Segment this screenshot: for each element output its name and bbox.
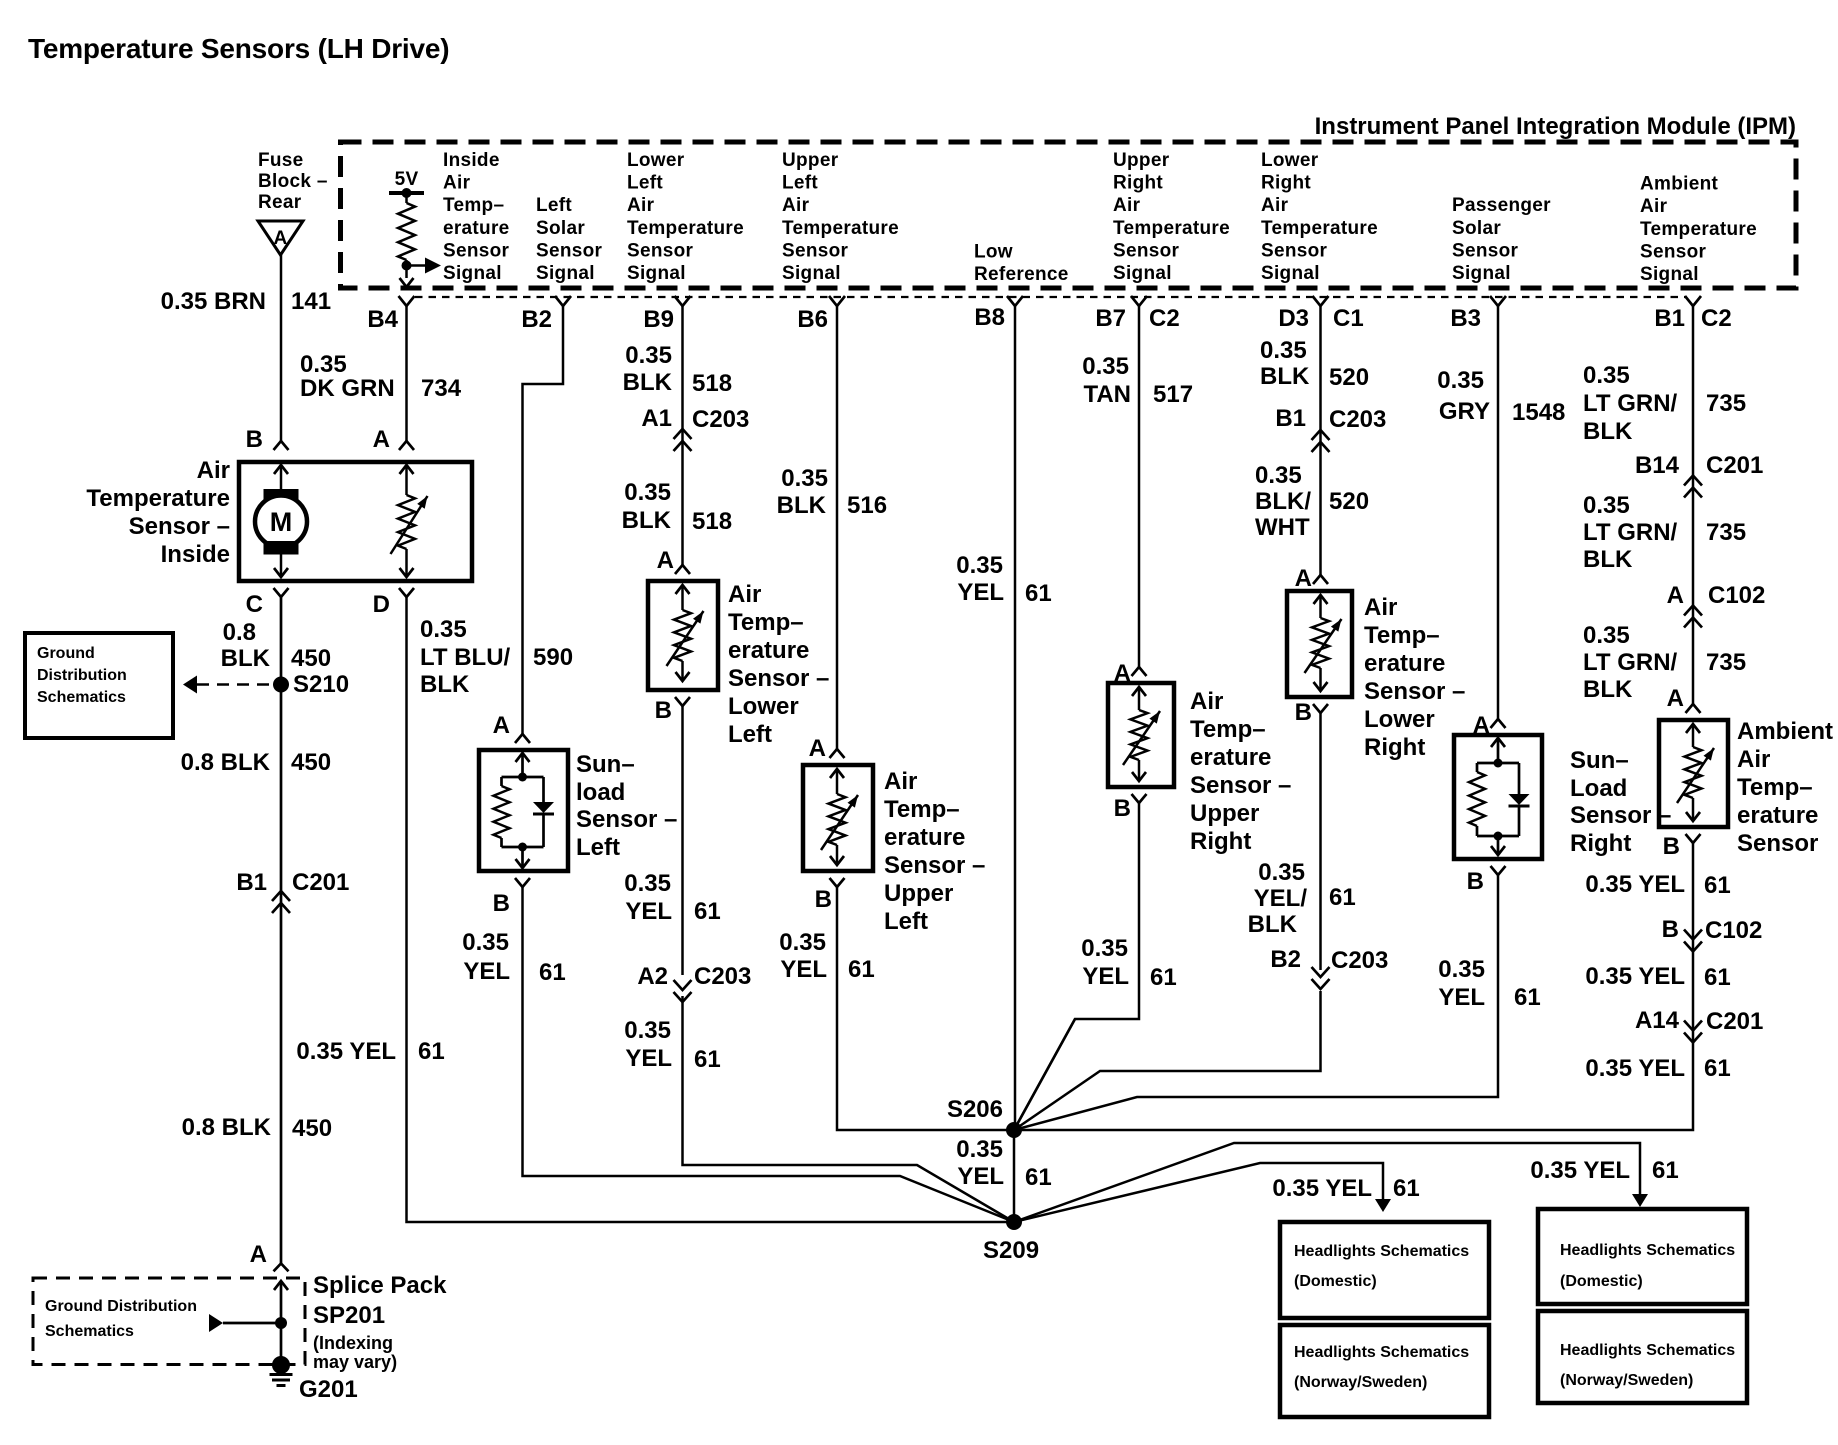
svg-text:Temperature: Temperature: [1640, 219, 1757, 240]
svg-text:5V: 5V: [395, 169, 419, 190]
svg-text:520: 520: [1329, 488, 1369, 515]
svg-text:0.35: 0.35: [462, 929, 509, 956]
svg-text:Left: Left: [728, 721, 772, 748]
svg-text:61: 61: [539, 959, 566, 986]
svg-text:BLK: BLK: [622, 507, 672, 534]
svg-text:Low: Low: [974, 241, 1013, 262]
svg-text:61: 61: [1652, 1157, 1679, 1184]
svg-text:Temperature: Temperature: [627, 218, 744, 239]
svg-text:Temp–: Temp–: [884, 796, 960, 823]
svg-text:734: 734: [421, 375, 462, 402]
svg-text:Schematics: Schematics: [45, 1323, 134, 1340]
svg-text:Air: Air: [443, 173, 471, 194]
svg-text:Right: Right: [1113, 173, 1163, 194]
svg-text:61: 61: [418, 1038, 445, 1065]
svg-text:Upper: Upper: [782, 150, 839, 171]
svg-text:YEL: YEL: [957, 1163, 1004, 1190]
svg-text:Air: Air: [1190, 688, 1223, 715]
svg-text:C102: C102: [1708, 582, 1765, 609]
svg-text:C102: C102: [1705, 917, 1762, 944]
svg-text:B6: B6: [797, 306, 828, 333]
svg-text:BLK: BLK: [777, 492, 827, 519]
svg-text:Ground Distribution: Ground Distribution: [45, 1298, 197, 1315]
svg-text:erature: erature: [884, 824, 965, 851]
svg-text:61: 61: [1393, 1175, 1420, 1202]
svg-text:0.8 BLK: 0.8 BLK: [181, 749, 271, 776]
svg-text:0.35: 0.35: [624, 1017, 671, 1044]
svg-text:erature: erature: [443, 218, 510, 239]
svg-text:B: B: [1295, 699, 1312, 726]
svg-text:Air: Air: [884, 768, 917, 795]
svg-text:G201: G201: [299, 1376, 358, 1403]
svg-text:Left: Left: [884, 908, 928, 935]
svg-text:B1: B1: [236, 869, 267, 896]
svg-text:C201: C201: [1706, 452, 1763, 479]
svg-text:B2: B2: [1270, 946, 1301, 973]
svg-text:B: B: [815, 886, 832, 913]
svg-text:B: B: [1114, 795, 1131, 822]
svg-text:erature: erature: [1364, 650, 1445, 677]
svg-text:Upper: Upper: [884, 880, 953, 907]
svg-text:B9: B9: [643, 306, 674, 333]
svg-text:Right: Right: [1570, 830, 1631, 857]
svg-text:Lower: Lower: [1364, 706, 1435, 733]
svg-text:Sensor –: Sensor –: [576, 806, 677, 833]
svg-text:Temperature: Temperature: [1261, 218, 1378, 239]
svg-text:Lower: Lower: [1261, 150, 1319, 171]
svg-text:BLK: BLK: [1248, 911, 1298, 938]
svg-text:LT GRN/: LT GRN/: [1583, 390, 1678, 417]
svg-text:Air: Air: [627, 195, 655, 216]
svg-text:M: M: [270, 507, 293, 537]
svg-text:B: B: [655, 697, 672, 724]
svg-text:BLK: BLK: [221, 645, 271, 672]
svg-text:A: A: [250, 1241, 267, 1268]
svg-text:erature: erature: [1190, 744, 1271, 771]
svg-text:Temp–: Temp–: [1364, 622, 1440, 649]
svg-text:0.35: 0.35: [1082, 353, 1129, 380]
svg-text:Sensor –: Sensor –: [1570, 802, 1671, 829]
svg-text:Headlights Schematics: Headlights Schematics: [1560, 1342, 1735, 1359]
svg-text:(Norway/Sweden): (Norway/Sweden): [1560, 1372, 1693, 1389]
svg-text:Signal: Signal: [443, 263, 502, 284]
svg-text:A: A: [273, 228, 287, 249]
svg-text:Left: Left: [782, 173, 818, 194]
svg-text:Fuse: Fuse: [258, 150, 304, 171]
svg-text:Instrument Panel Integration M: Instrument Panel Integration Module (IPM…: [1315, 113, 1796, 140]
svg-text:D3: D3: [1278, 305, 1309, 332]
svg-text:Left: Left: [576, 834, 620, 861]
svg-text:Left: Left: [627, 173, 663, 194]
svg-text:YEL: YEL: [463, 958, 510, 985]
svg-text:Sensor: Sensor: [1452, 240, 1519, 261]
svg-text:erature: erature: [1737, 802, 1818, 829]
svg-text:518: 518: [692, 370, 732, 397]
svg-text:LT GRN/: LT GRN/: [1583, 519, 1678, 546]
svg-text:Lower: Lower: [728, 693, 799, 720]
svg-text:C203: C203: [692, 406, 749, 433]
svg-text:SP201: SP201: [313, 1302, 385, 1329]
svg-text:YEL/: YEL/: [1254, 885, 1308, 912]
svg-text:590: 590: [533, 644, 573, 671]
svg-text:erature: erature: [728, 637, 809, 664]
svg-text:Sensor –: Sensor –: [884, 852, 985, 879]
svg-text:735: 735: [1706, 649, 1746, 676]
svg-text:A: A: [657, 547, 674, 574]
svg-text:0.35 YEL: 0.35 YEL: [1530, 1157, 1630, 1184]
svg-text:0.35: 0.35: [625, 342, 672, 369]
svg-text:1548: 1548: [1512, 399, 1565, 426]
svg-text:A: A: [1667, 582, 1684, 609]
svg-text:450: 450: [291, 645, 331, 672]
svg-text:0.35 YEL: 0.35 YEL: [1585, 871, 1685, 898]
svg-text:Air: Air: [1737, 746, 1770, 773]
svg-text:A: A: [1295, 565, 1312, 592]
svg-text:Load: Load: [1570, 775, 1627, 802]
svg-text:Sensor –: Sensor –: [1190, 772, 1291, 799]
svg-text:Signal: Signal: [1261, 263, 1320, 284]
svg-text:0.35: 0.35: [1583, 622, 1630, 649]
svg-text:Upper: Upper: [1190, 800, 1259, 827]
svg-text:0.8: 0.8: [223, 619, 256, 646]
svg-text:C1: C1: [1333, 305, 1364, 332]
svg-text:0.35: 0.35: [956, 1136, 1003, 1163]
svg-text:Signal: Signal: [1640, 264, 1699, 285]
svg-text:61: 61: [1704, 964, 1731, 991]
svg-text:0.35 YEL: 0.35 YEL: [1585, 963, 1685, 990]
svg-text:0.35: 0.35: [300, 351, 347, 378]
svg-text:61: 61: [1704, 1055, 1731, 1082]
svg-text:C203: C203: [1329, 406, 1386, 433]
svg-text:YEL: YEL: [1082, 963, 1129, 990]
svg-text:Temperature: Temperature: [1113, 218, 1230, 239]
svg-text:Air: Air: [782, 195, 810, 216]
svg-text:LT BLU/: LT BLU/: [420, 644, 511, 671]
svg-text:DK GRN: DK GRN: [300, 375, 395, 402]
svg-text:0.35: 0.35: [1255, 462, 1302, 489]
svg-text:GRY: GRY: [1439, 398, 1490, 425]
svg-text:B4: B4: [367, 306, 398, 333]
svg-text:Right: Right: [1261, 173, 1311, 194]
svg-text:0.35: 0.35: [1438, 956, 1485, 983]
svg-text:BLK: BLK: [420, 671, 470, 698]
svg-text:Sensor: Sensor: [782, 240, 849, 261]
svg-text:61: 61: [1025, 1164, 1052, 1191]
svg-text:C2: C2: [1701, 305, 1732, 332]
svg-text:Sun–: Sun–: [576, 751, 635, 778]
svg-text:Temperature: Temperature: [782, 218, 899, 239]
svg-text:Sun–: Sun–: [1570, 747, 1629, 774]
svg-text:Upper: Upper: [1113, 150, 1170, 171]
svg-text:C: C: [246, 591, 263, 618]
svg-text:Signal: Signal: [627, 263, 686, 284]
svg-text:B: B: [246, 426, 263, 453]
svg-text:Sensor: Sensor: [1113, 240, 1180, 261]
svg-text:B3: B3: [1450, 305, 1481, 332]
svg-text:Right: Right: [1190, 828, 1251, 855]
svg-text:Inside: Inside: [443, 150, 500, 171]
svg-text:Sensor: Sensor: [1261, 240, 1328, 261]
svg-text:Schematics: Schematics: [37, 689, 126, 706]
svg-text:61: 61: [1329, 884, 1356, 911]
svg-text:Left: Left: [536, 195, 572, 216]
svg-text:Air: Air: [1261, 195, 1289, 216]
svg-text:Air: Air: [197, 457, 230, 484]
svg-text:0.35: 0.35: [779, 929, 826, 956]
svg-text:B1: B1: [1275, 405, 1306, 432]
svg-text:(Indexing: (Indexing: [313, 1333, 393, 1353]
svg-text:61: 61: [1150, 964, 1177, 991]
svg-text:YEL: YEL: [957, 579, 1004, 606]
svg-text:Right: Right: [1364, 734, 1425, 761]
svg-text:BLK: BLK: [1583, 546, 1633, 573]
svg-text:0.35: 0.35: [420, 616, 467, 643]
svg-text:517: 517: [1153, 381, 1193, 408]
svg-text:Headlights Schematics: Headlights Schematics: [1294, 1344, 1469, 1361]
svg-text:Distribution: Distribution: [37, 667, 127, 684]
svg-text:Temp–: Temp–: [1737, 774, 1813, 801]
svg-text:Lower: Lower: [627, 150, 685, 171]
svg-text:0.35: 0.35: [624, 479, 671, 506]
svg-text:450: 450: [292, 1115, 332, 1142]
svg-text:0.35 BRN: 0.35 BRN: [161, 288, 266, 315]
svg-text:61: 61: [694, 898, 721, 925]
svg-text:61: 61: [694, 1046, 721, 1073]
svg-text:YEL: YEL: [625, 1045, 672, 1072]
svg-text:Temp–: Temp–: [443, 195, 504, 216]
svg-text:520: 520: [1329, 364, 1369, 391]
svg-text:Sensor –: Sensor –: [728, 665, 829, 692]
svg-text:Rear: Rear: [258, 192, 302, 213]
svg-text:YEL: YEL: [780, 956, 827, 983]
svg-text:Headlights Schematics: Headlights Schematics: [1560, 1242, 1735, 1259]
svg-text:0.35 YEL: 0.35 YEL: [296, 1038, 396, 1065]
svg-text:0.35: 0.35: [781, 465, 828, 492]
svg-text:A: A: [493, 712, 510, 739]
svg-text:0.35: 0.35: [624, 870, 671, 897]
svg-text:A2: A2: [637, 963, 668, 990]
svg-text:0.35 YEL: 0.35 YEL: [1585, 1055, 1685, 1082]
svg-text:Sensor: Sensor: [627, 240, 694, 261]
svg-text:Solar: Solar: [1452, 218, 1501, 239]
svg-text:Sensor: Sensor: [1737, 830, 1818, 857]
svg-text:TAN: TAN: [1083, 381, 1131, 408]
svg-text:Sensor –: Sensor –: [1364, 678, 1465, 705]
svg-text:B8: B8: [974, 304, 1005, 331]
svg-text:Ground: Ground: [37, 645, 95, 662]
svg-text:A: A: [1667, 685, 1684, 712]
svg-text:Reference: Reference: [974, 264, 1069, 285]
svg-text:YEL: YEL: [625, 898, 672, 925]
svg-text:C203: C203: [694, 963, 751, 990]
svg-text:Ambient: Ambient: [1640, 174, 1718, 195]
svg-text:D: D: [373, 591, 390, 618]
svg-text:A1: A1: [641, 405, 672, 432]
svg-text:may vary): may vary): [313, 1352, 397, 1372]
svg-text:S206: S206: [947, 1096, 1003, 1123]
svg-text:Block –: Block –: [258, 171, 328, 192]
svg-text:Temp–: Temp–: [1190, 716, 1266, 743]
svg-text:load: load: [576, 779, 625, 806]
svg-text:0.35: 0.35: [1583, 492, 1630, 519]
svg-text:516: 516: [847, 492, 887, 519]
svg-text:61: 61: [848, 956, 875, 983]
svg-text:450: 450: [291, 749, 331, 776]
svg-text:A14: A14: [1635, 1007, 1680, 1034]
svg-text:B: B: [1662, 916, 1679, 943]
svg-text:A: A: [809, 735, 826, 762]
svg-text:61: 61: [1704, 872, 1731, 899]
svg-text:61: 61: [1514, 984, 1541, 1011]
svg-text:735: 735: [1706, 390, 1746, 417]
svg-text:61: 61: [1025, 580, 1052, 607]
svg-text:A: A: [373, 426, 390, 453]
svg-text:(Domestic): (Domestic): [1560, 1273, 1643, 1290]
svg-text:0.35 YEL: 0.35 YEL: [1272, 1175, 1372, 1202]
svg-text:C203: C203: [1331, 947, 1388, 974]
svg-text:0.8 BLK: 0.8 BLK: [182, 1114, 272, 1141]
svg-text:C2: C2: [1149, 305, 1180, 332]
svg-text:BLK: BLK: [1583, 418, 1633, 445]
svg-text:YEL: YEL: [1438, 984, 1485, 1011]
svg-text:Signal: Signal: [1113, 263, 1172, 284]
svg-text:735: 735: [1706, 519, 1746, 546]
svg-text:B14: B14: [1635, 452, 1680, 479]
svg-text:C201: C201: [1706, 1008, 1763, 1035]
svg-text:B2: B2: [521, 306, 552, 333]
svg-text:0.35: 0.35: [1258, 859, 1305, 886]
svg-text:Signal: Signal: [782, 263, 841, 284]
svg-text:Sensor: Sensor: [1640, 241, 1707, 262]
svg-text:Splice Pack: Splice Pack: [313, 1272, 447, 1299]
svg-text:Signal: Signal: [1452, 263, 1511, 284]
svg-text:Signal: Signal: [536, 263, 595, 284]
svg-text:Passenger: Passenger: [1452, 195, 1551, 216]
svg-text:Air: Air: [1640, 196, 1668, 217]
svg-text:Sensor: Sensor: [443, 240, 510, 261]
svg-text:Temp–: Temp–: [728, 609, 804, 636]
svg-text:B7: B7: [1095, 305, 1126, 332]
svg-text:S210: S210: [293, 671, 349, 698]
svg-text:BLK: BLK: [1260, 363, 1310, 390]
svg-text:S209: S209: [983, 1237, 1039, 1264]
svg-text:Sensor: Sensor: [536, 240, 603, 261]
svg-text:C201: C201: [292, 869, 349, 896]
svg-text:Headlights Schematics: Headlights Schematics: [1294, 1243, 1469, 1260]
svg-text:Air: Air: [1364, 594, 1397, 621]
svg-text:(Domestic): (Domestic): [1294, 1273, 1377, 1290]
svg-text:Solar: Solar: [536, 218, 585, 239]
svg-text:Temperature: Temperature: [86, 485, 230, 512]
svg-text:0.35: 0.35: [1260, 337, 1307, 364]
svg-text:B: B: [493, 890, 510, 917]
svg-text:WHT: WHT: [1255, 514, 1310, 541]
svg-text:B: B: [1467, 868, 1484, 895]
svg-text:0.35: 0.35: [1437, 367, 1484, 394]
svg-text:0.35: 0.35: [1583, 362, 1630, 389]
svg-text:Temperature Sensors (LH Drive): Temperature Sensors (LH Drive): [28, 33, 449, 64]
svg-text:0.35: 0.35: [1081, 935, 1128, 962]
svg-text:141: 141: [291, 288, 331, 315]
svg-text:B: B: [1663, 833, 1680, 860]
svg-text:B1: B1: [1654, 305, 1685, 332]
svg-text:Ambient: Ambient: [1737, 718, 1833, 745]
svg-text:0.35: 0.35: [956, 552, 1003, 579]
svg-text:Air: Air: [728, 581, 761, 608]
svg-text:BLK: BLK: [623, 369, 673, 396]
svg-text:Sensor –: Sensor –: [129, 513, 230, 540]
svg-text:(Norway/Sweden): (Norway/Sweden): [1294, 1374, 1427, 1391]
svg-text:Inside: Inside: [161, 541, 230, 568]
svg-text:Air: Air: [1113, 195, 1141, 216]
svg-text:LT GRN/: LT GRN/: [1583, 649, 1678, 676]
svg-text:BLK: BLK: [1583, 676, 1633, 703]
svg-text:518: 518: [692, 508, 732, 535]
svg-text:BLK/: BLK/: [1255, 488, 1311, 515]
